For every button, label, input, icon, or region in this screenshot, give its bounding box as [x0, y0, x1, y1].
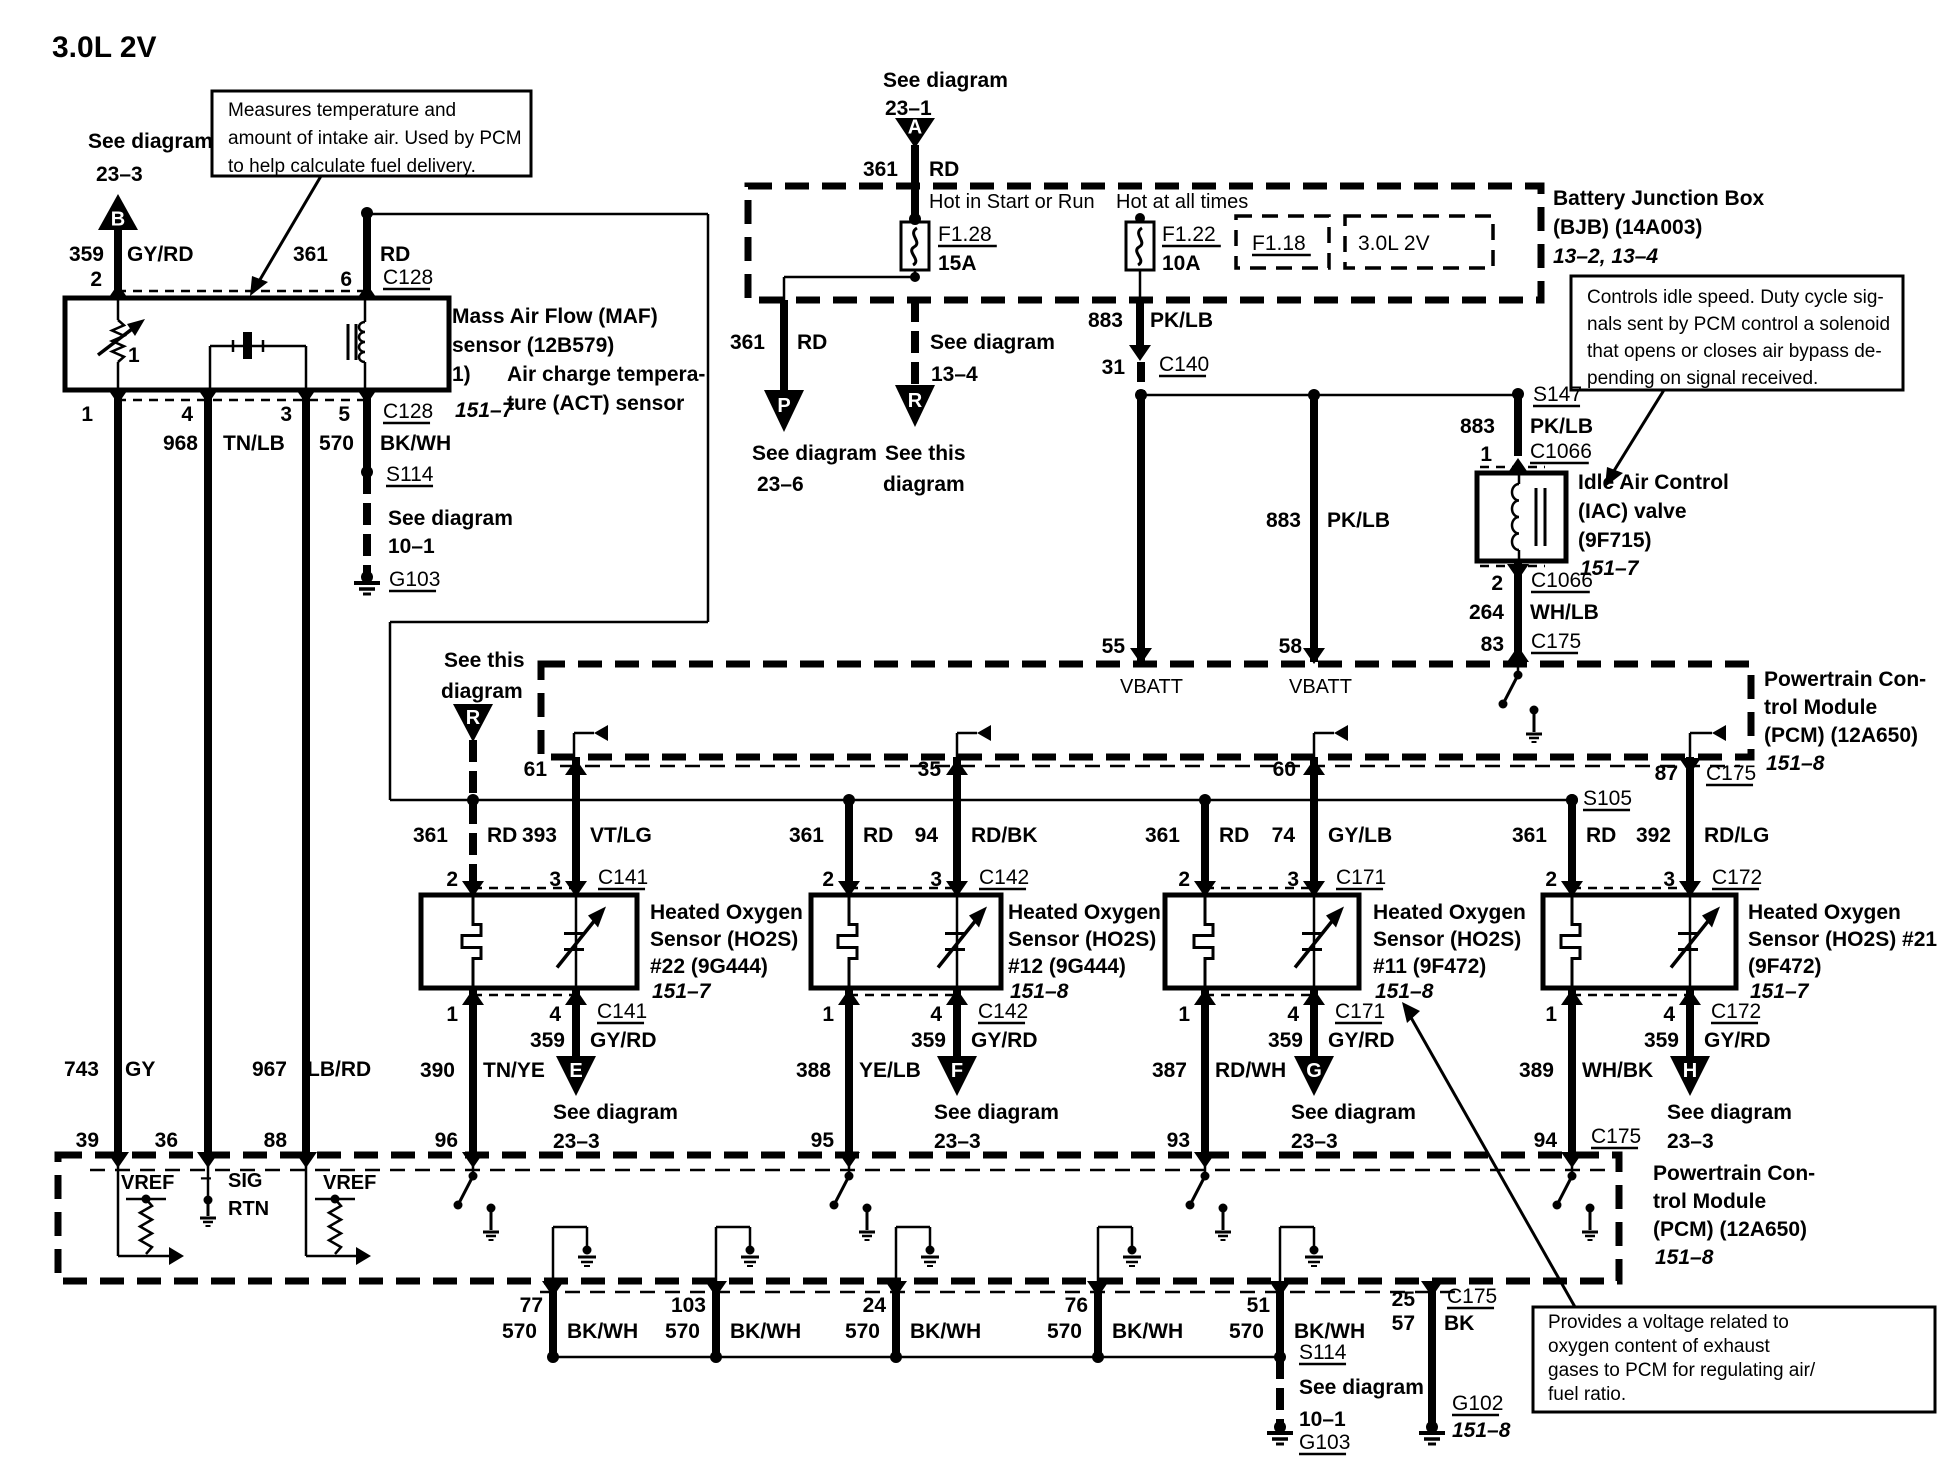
svg-text:BK/WH: BK/WH [730, 1320, 801, 1343]
svg-text:359: 359 [911, 1029, 946, 1052]
svg-text:See diagram: See diagram [388, 507, 513, 530]
svg-text:Powertrain Con-: Powertrain Con- [1653, 1162, 1815, 1185]
svg-text:sensor (12B579): sensor (12B579) [452, 334, 614, 357]
svg-text:361: 361 [413, 824, 448, 847]
svg-text:Powertrain Con-: Powertrain Con- [1764, 668, 1926, 691]
svg-text:S147: S147 [1533, 383, 1582, 406]
svg-text:nals sent by PCM control a sol: nals sent by PCM control a solenoid [1587, 314, 1890, 335]
svg-text:10–1: 10–1 [1299, 1408, 1346, 1431]
svg-text:(PCM) (12A650): (PCM) (12A650) [1764, 724, 1918, 747]
svg-text:13–4: 13–4 [931, 363, 978, 386]
svg-text:35: 35 [918, 758, 942, 781]
svg-text:5: 5 [338, 403, 350, 426]
svg-text:RTN: RTN [228, 1198, 269, 1220]
svg-text:264: 264 [1469, 601, 1504, 624]
svg-text:Hot in Start or Run: Hot in Start or Run [929, 191, 1095, 213]
svg-text:Heated Oxygen: Heated Oxygen [650, 901, 803, 924]
svg-text:ture (ACT) sensor: ture (ACT) sensor [507, 392, 684, 415]
svg-text:6: 6 [340, 268, 352, 291]
svg-text:151–8: 151–8 [1766, 752, 1825, 775]
svg-text:BK/WH: BK/WH [910, 1320, 981, 1343]
svg-text:359: 359 [1644, 1029, 1679, 1052]
svg-text:R: R [466, 707, 481, 729]
svg-text:C171: C171 [1336, 866, 1386, 889]
svg-text:C175: C175 [1591, 1125, 1641, 1148]
svg-text:58: 58 [1279, 635, 1303, 658]
svg-text:(BJB) (14A003): (BJB) (14A003) [1553, 216, 1702, 239]
svg-text:S114: S114 [1299, 1341, 1347, 1364]
svg-text:359: 359 [1268, 1029, 1303, 1052]
svg-text:83: 83 [1481, 633, 1504, 656]
svg-text:G: G [1306, 1060, 1322, 1082]
svg-text:96: 96 [435, 1129, 458, 1152]
svg-text:392: 392 [1636, 824, 1671, 847]
svg-text:151–7: 151–7 [652, 980, 712, 1003]
svg-text:VREF: VREF [323, 1172, 376, 1194]
svg-text:See diagram: See diagram [553, 1101, 678, 1124]
svg-text:570: 570 [665, 1320, 700, 1343]
svg-text:359: 359 [530, 1029, 565, 1052]
svg-text:94: 94 [1534, 1129, 1558, 1152]
svg-text:P: P [777, 395, 790, 417]
svg-text:RD/WH: RD/WH [1215, 1059, 1286, 1082]
svg-text:743: 743 [64, 1058, 99, 1081]
svg-text:PK/LB: PK/LB [1327, 509, 1390, 532]
svg-text:1: 1 [822, 1003, 834, 1026]
svg-text:C175: C175 [1706, 762, 1756, 785]
svg-text:361: 361 [863, 158, 898, 181]
svg-text:#22 (9G444): #22 (9G444) [650, 955, 768, 978]
svg-text:1: 1 [128, 344, 140, 367]
svg-text:361: 361 [730, 331, 765, 354]
svg-text:C1066: C1066 [1530, 440, 1592, 463]
svg-text:570: 570 [502, 1320, 537, 1343]
svg-text:74: 74 [1272, 824, 1296, 847]
svg-text:2: 2 [1545, 868, 1557, 891]
svg-text:TN/YE: TN/YE [483, 1059, 545, 1082]
svg-text:4: 4 [181, 403, 193, 426]
svg-text:359: 359 [69, 243, 104, 266]
svg-text:393: 393 [522, 824, 557, 847]
svg-text:93: 93 [1167, 1129, 1190, 1152]
svg-text:BK/WH: BK/WH [1294, 1320, 1365, 1343]
svg-text:151–8: 151–8 [1452, 1419, 1511, 1442]
svg-text:See diagram: See diagram [1291, 1101, 1416, 1124]
svg-text:151–7: 151–7 [455, 399, 515, 422]
svg-text:trol Module: trol Module [1653, 1190, 1766, 1213]
svg-text:F1.22: F1.22 [1162, 223, 1216, 246]
svg-text:trol Module: trol Module [1764, 696, 1877, 719]
svg-text:S105: S105 [1583, 787, 1632, 810]
svg-text:See diagram: See diagram [1299, 1376, 1424, 1399]
svg-text:4: 4 [1663, 1003, 1675, 1026]
svg-text:968: 968 [163, 432, 198, 455]
svg-text:23–3: 23–3 [934, 1130, 981, 1153]
svg-text:RD/BK: RD/BK [971, 824, 1038, 847]
svg-text:2: 2 [1178, 868, 1190, 891]
svg-text:151–8: 151–8 [1655, 1246, 1714, 1269]
svg-text:570: 570 [845, 1320, 880, 1343]
svg-text:Battery Junction Box: Battery Junction Box [1553, 187, 1765, 210]
svg-text:C142: C142 [979, 866, 1029, 889]
svg-text:77: 77 [520, 1294, 543, 1317]
svg-text:RD: RD [487, 824, 517, 847]
svg-text:57: 57 [1392, 1312, 1415, 1335]
svg-text:Heated Oxygen: Heated Oxygen [1748, 901, 1901, 924]
svg-text:390: 390 [420, 1059, 455, 1082]
svg-text:fuel ratio.: fuel ratio. [1548, 1384, 1626, 1405]
svg-text:Sensor (HO2S) #21: Sensor (HO2S) #21 [1748, 928, 1937, 951]
svg-text:883: 883 [1460, 415, 1495, 438]
svg-text:Measures temperature and: Measures temperature and [228, 100, 456, 121]
svg-text:C175: C175 [1447, 1285, 1497, 1308]
svg-text:76: 76 [1065, 1294, 1088, 1317]
svg-text:88: 88 [264, 1129, 288, 1152]
svg-text:Heated Oxygen: Heated Oxygen [1373, 901, 1526, 924]
svg-text:GY/LB: GY/LB [1328, 824, 1392, 847]
svg-text:Sensor (HO2S): Sensor (HO2S) [1008, 928, 1156, 951]
svg-text:C142: C142 [978, 1000, 1028, 1023]
svg-text:3: 3 [280, 403, 292, 426]
svg-text:967: 967 [252, 1058, 287, 1081]
svg-text:G103: G103 [1299, 1431, 1350, 1454]
svg-text:361: 361 [293, 243, 328, 266]
svg-text:VREF: VREF [121, 1172, 174, 1194]
svg-text:to help calculate fuel deliver: to help calculate fuel delivery. [228, 156, 476, 177]
svg-text:GY/RD: GY/RD [971, 1029, 1038, 1052]
svg-text:2: 2 [822, 868, 834, 891]
svg-text:VT/LG: VT/LG [590, 824, 652, 847]
svg-text:GY/RD: GY/RD [1328, 1029, 1395, 1052]
svg-text:gases to PCM for regulating ai: gases to PCM for regulating air/ [1548, 1360, 1816, 1381]
svg-text:RD: RD [1219, 824, 1249, 847]
svg-text:BK/WH: BK/WH [380, 432, 451, 455]
svg-text:C172: C172 [1711, 1000, 1761, 1023]
svg-text:570: 570 [1047, 1320, 1082, 1343]
svg-text:13–2, 13–4: 13–2, 13–4 [1553, 245, 1658, 268]
svg-text:BK/WH: BK/WH [567, 1320, 638, 1343]
svg-text:94: 94 [915, 824, 939, 847]
svg-text:387: 387 [1152, 1059, 1187, 1082]
svg-text:PK/LB: PK/LB [1150, 309, 1213, 332]
svg-text:S114: S114 [386, 463, 434, 486]
svg-text:WH/LB: WH/LB [1530, 601, 1599, 624]
svg-text:See this: See this [444, 649, 525, 672]
svg-text:23–3: 23–3 [553, 1130, 600, 1153]
svg-text:Sensor (HO2S): Sensor (HO2S) [1373, 928, 1521, 951]
svg-text:39: 39 [76, 1129, 99, 1152]
svg-text:C141: C141 [598, 866, 648, 889]
svg-text:1: 1 [446, 1003, 458, 1026]
svg-text:Sensor (HO2S): Sensor (HO2S) [650, 928, 798, 951]
svg-text:3.0L 2V: 3.0L 2V [1358, 232, 1430, 255]
svg-text:(PCM) (12A650): (PCM) (12A650) [1653, 1218, 1807, 1241]
svg-text:See diagram: See diagram [930, 331, 1055, 354]
svg-text:diagram: diagram [883, 473, 965, 496]
svg-text:C140: C140 [1159, 353, 1209, 376]
svg-text:BK: BK [1444, 1312, 1474, 1335]
svg-text:TN/LB: TN/LB [223, 432, 285, 455]
svg-text:Mass Air Flow (MAF): Mass Air Flow (MAF) [452, 305, 658, 328]
svg-text:oxygen content of exhaust: oxygen content of exhaust [1548, 1336, 1771, 1357]
svg-text:3.0L 2V: 3.0L 2V [52, 31, 157, 64]
svg-text:1: 1 [1178, 1003, 1190, 1026]
svg-text:G102: G102 [1452, 1392, 1503, 1415]
svg-text:C141: C141 [597, 1000, 647, 1023]
svg-text:1: 1 [1480, 443, 1492, 466]
svg-text:See diagram: See diagram [883, 69, 1008, 92]
svg-text:GY/RD: GY/RD [590, 1029, 657, 1052]
svg-text:23–3: 23–3 [96, 163, 143, 186]
svg-text:1: 1 [81, 403, 93, 426]
svg-text:87: 87 [1655, 762, 1678, 785]
svg-text:4: 4 [549, 1003, 561, 1026]
svg-text:31: 31 [1102, 356, 1126, 379]
svg-text:103: 103 [671, 1294, 706, 1317]
svg-text:95: 95 [811, 1129, 835, 1152]
svg-text:B: B [111, 209, 125, 231]
svg-text:VBATT: VBATT [1120, 676, 1183, 698]
svg-text:−: − [200, 1168, 212, 1190]
svg-text:See diagram: See diagram [752, 442, 877, 465]
svg-text:C128: C128 [383, 266, 433, 289]
svg-text:2: 2 [90, 268, 102, 291]
svg-text:Provides a voltage related to: Provides a voltage related to [1548, 1312, 1789, 1333]
svg-text:15A: 15A [938, 252, 977, 275]
svg-text:E: E [569, 1060, 582, 1082]
svg-text:amount of intake air. Used by: amount of intake air. Used by PCM [228, 128, 522, 149]
svg-text:PK/LB: PK/LB [1530, 415, 1593, 438]
svg-text:C172: C172 [1712, 866, 1762, 889]
svg-text:10A: 10A [1162, 252, 1201, 275]
svg-text:Controls idle speed. Duty cycl: Controls idle speed. Duty cycle sig- [1587, 287, 1884, 308]
svg-text:(IAC) valve: (IAC) valve [1578, 500, 1687, 523]
svg-text:361: 361 [789, 824, 824, 847]
svg-text:#11 (9F472): #11 (9F472) [1373, 955, 1486, 978]
svg-text:24: 24 [863, 1294, 887, 1317]
svg-text:Hot at all times: Hot at all times [1116, 191, 1248, 213]
svg-text:883: 883 [1266, 509, 1301, 532]
svg-text:4: 4 [930, 1003, 942, 1026]
svg-text:2: 2 [1491, 572, 1503, 595]
svg-text:RD: RD [929, 158, 959, 181]
svg-text:1: 1 [1545, 1003, 1557, 1026]
svg-text:2: 2 [446, 868, 458, 891]
svg-text:See diagram: See diagram [934, 1101, 1059, 1124]
svg-text:Air charge tempera-: Air charge tempera- [507, 363, 705, 386]
svg-text:SIG: SIG [228, 1170, 262, 1192]
svg-text:BK/WH: BK/WH [1112, 1320, 1183, 1343]
svg-text:23–6: 23–6 [757, 473, 804, 496]
svg-text:GY/RD: GY/RD [1704, 1029, 1771, 1052]
svg-text:361: 361 [1512, 824, 1547, 847]
svg-text:G103: G103 [389, 568, 440, 591]
svg-text:36: 36 [155, 1129, 178, 1152]
svg-text:55: 55 [1102, 635, 1126, 658]
svg-text:C128: C128 [383, 400, 433, 423]
svg-text:883: 883 [1088, 309, 1123, 332]
svg-text:diagram: diagram [441, 680, 523, 703]
svg-text:A: A [908, 117, 922, 139]
svg-text:YE/LB: YE/LB [859, 1059, 921, 1082]
svg-text:pending on signal received.: pending on signal received. [1587, 368, 1818, 389]
svg-text:RD: RD [863, 824, 893, 847]
svg-text:23–3: 23–3 [1667, 1130, 1714, 1153]
svg-text:4: 4 [1287, 1003, 1299, 1026]
svg-text:RD/LG: RD/LG [1704, 824, 1769, 847]
svg-text:389: 389 [1519, 1059, 1554, 1082]
svg-text:See diagram: See diagram [88, 130, 213, 153]
svg-text:RD: RD [797, 331, 827, 354]
svg-text:361: 361 [1145, 824, 1180, 847]
svg-text:GY/RD: GY/RD [127, 243, 194, 266]
svg-text:#12 (9G444): #12 (9G444) [1008, 955, 1126, 978]
svg-text:F1.28: F1.28 [938, 223, 992, 246]
svg-text:that opens or closes air bypas: that opens or closes air bypass de- [1587, 341, 1882, 362]
svg-text:RD: RD [1586, 824, 1616, 847]
svg-text:1): 1) [452, 363, 471, 386]
svg-text:23–3: 23–3 [1291, 1130, 1338, 1153]
svg-text:10–1: 10–1 [388, 535, 435, 558]
svg-text:See this: See this [885, 442, 966, 465]
svg-text:(9F715): (9F715) [1578, 529, 1652, 552]
svg-text:RD: RD [380, 243, 410, 266]
svg-text:GY: GY [125, 1058, 155, 1081]
svg-text:(9F472): (9F472) [1748, 955, 1822, 978]
svg-text:F1.18: F1.18 [1252, 232, 1306, 255]
svg-text:61: 61 [524, 758, 548, 781]
svg-text:60: 60 [1273, 758, 1296, 781]
svg-text:C171: C171 [1335, 1000, 1385, 1023]
svg-text:C1066: C1066 [1531, 569, 1593, 592]
svg-text:Heated Oxygen: Heated Oxygen [1008, 901, 1161, 924]
svg-text:H: H [1683, 1060, 1697, 1082]
svg-text:Idle Air Control: Idle Air Control [1578, 471, 1729, 494]
svg-text:51: 51 [1247, 1294, 1271, 1317]
svg-text:R: R [908, 390, 923, 412]
svg-text:See diagram: See diagram [1667, 1101, 1792, 1124]
svg-text:LB/RD: LB/RD [307, 1058, 371, 1081]
svg-text:VBATT: VBATT [1289, 676, 1352, 698]
svg-text:570: 570 [1229, 1320, 1264, 1343]
svg-text:WH/BK: WH/BK [1582, 1059, 1653, 1082]
svg-text:570: 570 [319, 432, 354, 455]
svg-text:F: F [951, 1060, 963, 1082]
svg-text:388: 388 [796, 1059, 831, 1082]
svg-text:C175: C175 [1531, 630, 1581, 653]
